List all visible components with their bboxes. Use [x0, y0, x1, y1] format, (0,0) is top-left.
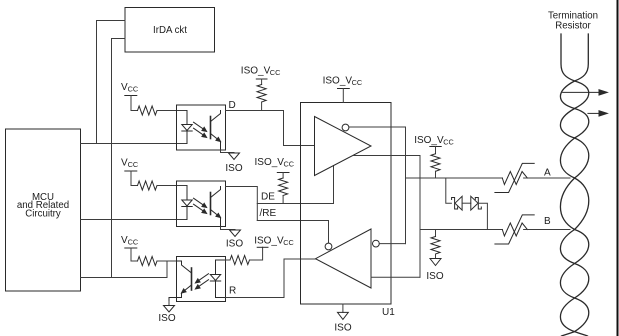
resistor (B-line bias): [431, 230, 440, 259]
resistor (channel R collector): [138, 257, 158, 266]
power VCC (channel R): [121, 235, 138, 261]
wire receiver bubble input to bus node: [379, 243, 405, 245]
varistor RV2 (B line protector): [495, 215, 534, 244]
svg-text:D: D: [229, 100, 236, 111]
wire A line: [406, 177, 503, 179]
power ISO_VCC (DE pull-up): [255, 157, 295, 178]
power ISO_VCC (D pull-up): [241, 66, 281, 85]
svg-text:ISO: ISO: [334, 323, 351, 334]
svg-text:CC: CC: [443, 138, 454, 147]
power ISO_VCC (U1): [323, 76, 363, 103]
wire resistor to opto U2: [157, 110, 187, 112]
svg-text:ISO: ISO: [226, 239, 243, 250]
power ISO_VCC (A-line bias): [414, 135, 454, 154]
twisted pair cable strand 1: [560, 34, 588, 336]
resistor (DE pull-up): [279, 178, 288, 195]
ground ISO (U1): [334, 304, 351, 334]
svg-text:Resistor: Resistor: [555, 20, 591, 31]
resistor (channel D series): [138, 106, 158, 115]
svg-text:ISO_V: ISO_V: [241, 66, 271, 77]
svg-text:ISO_V: ISO_V: [323, 76, 353, 87]
driver inverting output bubble: [342, 124, 349, 131]
resistor (A-line bias): [431, 154, 440, 171]
resistor (D pull-up): [257, 85, 266, 103]
power VCC (channel DE): [121, 158, 138, 186]
svg-text:ISO_V: ISO_V: [414, 135, 444, 146]
ground ISO (opto U3 emitter): [221, 227, 244, 250]
wire B to twisted pair: [524, 229, 570, 231]
receiver inverting input bubble: [373, 240, 380, 247]
MCU and Related Circuitry box: [6, 129, 81, 291]
svg-text:/RE: /RE: [260, 208, 277, 219]
wire opto U3 output to DE//RE node: [226, 187, 258, 221]
wire resistor to ISO_VCC: [226, 247, 263, 260]
wire IrDA to node on D input line: [97, 21, 126, 144]
svg-text:U1: U1: [382, 307, 395, 318]
diode D2 (schottky, pointing right): [471, 196, 482, 210]
svg-text:CC: CC: [352, 78, 363, 87]
svg-text:R: R: [229, 286, 236, 297]
figure right border: [617, 0, 619, 336]
receiver enable bubble: [325, 243, 332, 250]
svg-text:ISO_V: ISO_V: [255, 157, 285, 168]
resistor (channel DE series): [138, 181, 158, 190]
wire resistor to A line: [435, 171, 437, 178]
wire bus vertical B-net: [419, 156, 421, 278]
wire driver output to bus node: [353, 155, 420, 157]
arrow to termination resistor (lower): [588, 111, 607, 116]
wire DE line into U1 driver enable: [257, 166, 333, 204]
svg-text:B: B: [544, 216, 551, 227]
wire MCU to opto U4 output node: [81, 261, 168, 278]
optocoupler U2 (D channel): [177, 105, 226, 150]
wire receiver input to bus node: [371, 276, 420, 278]
IC U1 transceiver box: [301, 103, 392, 305]
svg-text:ISO_V: ISO_V: [254, 236, 284, 247]
svg-text:CC: CC: [128, 238, 139, 247]
power ISO_VCC (R LED): [254, 236, 294, 248]
optocoupler U3 (DE channel): [177, 181, 226, 227]
svg-text:CC: CC: [270, 68, 281, 77]
wire A line to TVS diodes: [446, 178, 452, 203]
wire resistor to D line: [261, 102, 263, 111]
wire MCU to opto U3 LED cathode: [81, 219, 188, 221]
wire IrDA to node on R output line: [112, 39, 126, 278]
wire D line: opto U2 to U1 driver input: [226, 111, 315, 146]
IrDA ckt box: [125, 8, 215, 53]
wire A to twisted pair: [524, 177, 570, 179]
op-amp driver (U1 top triangle): [315, 117, 372, 176]
ground ISO (opto U4 emitter): [158, 302, 175, 325]
wire R line: U1 receiver output to opto U4 LED: [226, 259, 316, 298]
svg-text:Circuitry: Circuitry: [25, 208, 61, 219]
wire driver bubble output to bus node: [349, 126, 406, 128]
diode D1 (schottky, pointing left): [452, 196, 463, 210]
svg-text:CC: CC: [128, 160, 139, 169]
arrow to termination resistor (upper): [563, 90, 608, 95]
wire /RE line into U1 receiver enable: [257, 221, 328, 244]
svg-text:DE: DE: [261, 192, 275, 203]
wire TVS diodes to B line: [478, 203, 487, 229]
svg-text:CC: CC: [284, 160, 295, 169]
wire resistor to opto U3: [157, 185, 187, 187]
wire B line: [420, 229, 502, 231]
wire resistor to opto U4 collector: [157, 260, 177, 262]
ground ISO (B-line bias): [426, 259, 443, 283]
svg-text:CC: CC: [283, 238, 294, 247]
op-amp receiver (U1 bottom triangle): [316, 229, 372, 288]
optocoupler U4 (R channel, mirrored): [169, 257, 226, 302]
svg-text:IrDA ckt: IrDA ckt: [153, 25, 187, 36]
svg-text:ISO: ISO: [158, 313, 175, 324]
svg-text:ISO: ISO: [225, 163, 242, 174]
wire MCU to opto U2 LED cathode: [81, 143, 188, 145]
wire bus vertical A-net: [405, 127, 407, 244]
svg-text:CC: CC: [128, 85, 139, 94]
power VCC (channel D): [121, 82, 138, 111]
svg-text:ISO: ISO: [426, 271, 443, 282]
resistor (R LED series): [230, 256, 250, 265]
svg-text:A: A: [544, 167, 551, 178]
varistor RV1 (A line protector): [495, 163, 534, 192]
wire resistor to DE line: [282, 196, 284, 204]
wire between diodes: [462, 202, 471, 204]
ground ISO (opto U2 emitter): [221, 150, 243, 174]
twisted pair cable strand 2: [560, 34, 588, 336]
Termination Resistor label: [548, 11, 598, 32]
